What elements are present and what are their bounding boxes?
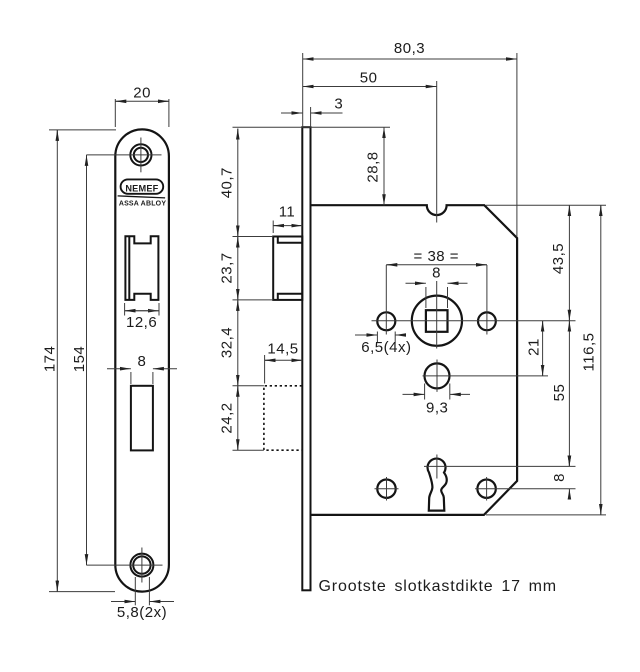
- center line vertical through notch/follower: [436, 81, 438, 223]
- dim 12,6: [124, 303, 126, 316]
- deadbolt cutout: [131, 386, 153, 451]
- svg-text:ASSA ABLOY: ASSA ABLOY: [119, 201, 167, 208]
- dim 5,8(2x): [134, 577, 136, 605]
- dim 116,5: [600, 205, 602, 515]
- bottom edge extension right: [486, 514, 606, 516]
- svg-text:9,3: 9,3: [426, 399, 448, 416]
- side holes vertical center lines: [385, 265, 387, 335]
- svg-text:8: 8: [551, 473, 568, 482]
- svg-text:80,3: 80,3: [394, 40, 425, 57]
- dim 50: [303, 86, 437, 88]
- svg-text:8: 8: [432, 265, 441, 282]
- latch bolt (side): [273, 237, 302, 300]
- follower circle: [412, 296, 462, 346]
- dim 6,5(4x): [376, 332, 378, 343]
- dim =38=: [386, 264, 487, 266]
- svg-text:24,2: 24,2: [219, 402, 236, 433]
- bottom hole right: [477, 480, 495, 498]
- svg-text:116,5: 116,5: [581, 333, 598, 372]
- dim 20: [114, 99, 116, 127]
- dim 8 (deadbolt width): [130, 372, 132, 384]
- svg-text:28,8: 28,8: [365, 151, 382, 182]
- svg-text:8: 8: [137, 353, 146, 370]
- dim 28,8: [233, 126, 391, 128]
- bottom hole center lines: [87, 564, 163, 566]
- top edge extension right: [486, 204, 606, 206]
- latch lip top: [278, 237, 303, 243]
- bottom hole left: [377, 480, 395, 498]
- latch cutout: [125, 236, 158, 300]
- svg-text:5,8(2x): 5,8(2x): [117, 604, 167, 621]
- dim 55: [568, 321, 570, 467]
- svg-text:43,5: 43,5: [550, 243, 567, 274]
- latch lip bottom: [278, 294, 303, 300]
- svg-text:50: 50: [360, 69, 378, 86]
- svg-text:Grootste slotkastdikte 17 mm: Grootste slotkastdikte 17 mm: [319, 578, 558, 595]
- svg-text:40,7: 40,7: [219, 167, 236, 198]
- chain extension lines: [233, 236, 274, 238]
- faceplate strip (edge view): [302, 127, 310, 590]
- svg-text:6,5(4x): 6,5(4x): [361, 339, 411, 356]
- keyhole center lines: [436, 455, 438, 479]
- dim 14,5: [264, 355, 266, 384]
- latch bevel line: [128, 236, 130, 300]
- dim 154: [86, 155, 88, 565]
- cylinder center lines: [436, 360, 438, 392]
- svg-text:55: 55: [551, 384, 568, 402]
- NEMEF oval logo: [121, 179, 164, 193]
- svg-text:20: 20: [133, 84, 151, 101]
- faceplate outline: [115, 129, 169, 591]
- follower square: [426, 310, 448, 332]
- dim 3: [310, 107, 312, 127]
- top hole center lines: [87, 154, 162, 156]
- svg-text:154: 154: [71, 346, 88, 373]
- svg-text:12,6: 12,6: [126, 314, 157, 331]
- lock case outline: [311, 205, 518, 515]
- svg-text:= 38 =: = 38 =: [414, 248, 460, 265]
- side hole left 6.5: [377, 312, 395, 330]
- dim 43,5: [568, 205, 570, 321]
- top screw hole inner: [134, 148, 148, 162]
- side hole right 6.5: [478, 312, 496, 330]
- swoosh line under logo: [118, 196, 166, 198]
- svg-text:21: 21: [526, 338, 543, 356]
- svg-text:14,5: 14,5: [267, 341, 298, 358]
- dim 174: [49, 129, 116, 131]
- cylinder hole 9,3: [425, 363, 450, 388]
- left dim chain 40,7 / 23,7 / 32,4 / 24,2: [237, 129, 239, 451]
- dim 11: [272, 221, 274, 234]
- top screw hole outer: [130, 144, 151, 165]
- dim 21: [542, 321, 544, 376]
- dim 8 (right): [568, 457, 570, 467]
- dim 9,3: [424, 384, 426, 400]
- svg-text:3: 3: [334, 96, 343, 113]
- svg-text:23,7: 23,7: [219, 252, 236, 283]
- svg-text:11: 11: [279, 204, 296, 221]
- bottom holes center lines: [375, 488, 399, 490]
- dim 80,3: [302, 53, 304, 127]
- dim 8 (square): [425, 287, 427, 308]
- follower horizontal center line: [372, 320, 576, 322]
- bottom screw hole outer: [130, 554, 153, 577]
- svg-text:NEMEF: NEMEF: [125, 183, 158, 193]
- deadbolt extended (dashed): [264, 386, 302, 450]
- keyhole: [428, 459, 447, 511]
- svg-text:174: 174: [42, 346, 59, 373]
- svg-text:32,4: 32,4: [219, 327, 236, 358]
- bottom screw hole inner: [133, 556, 150, 573]
